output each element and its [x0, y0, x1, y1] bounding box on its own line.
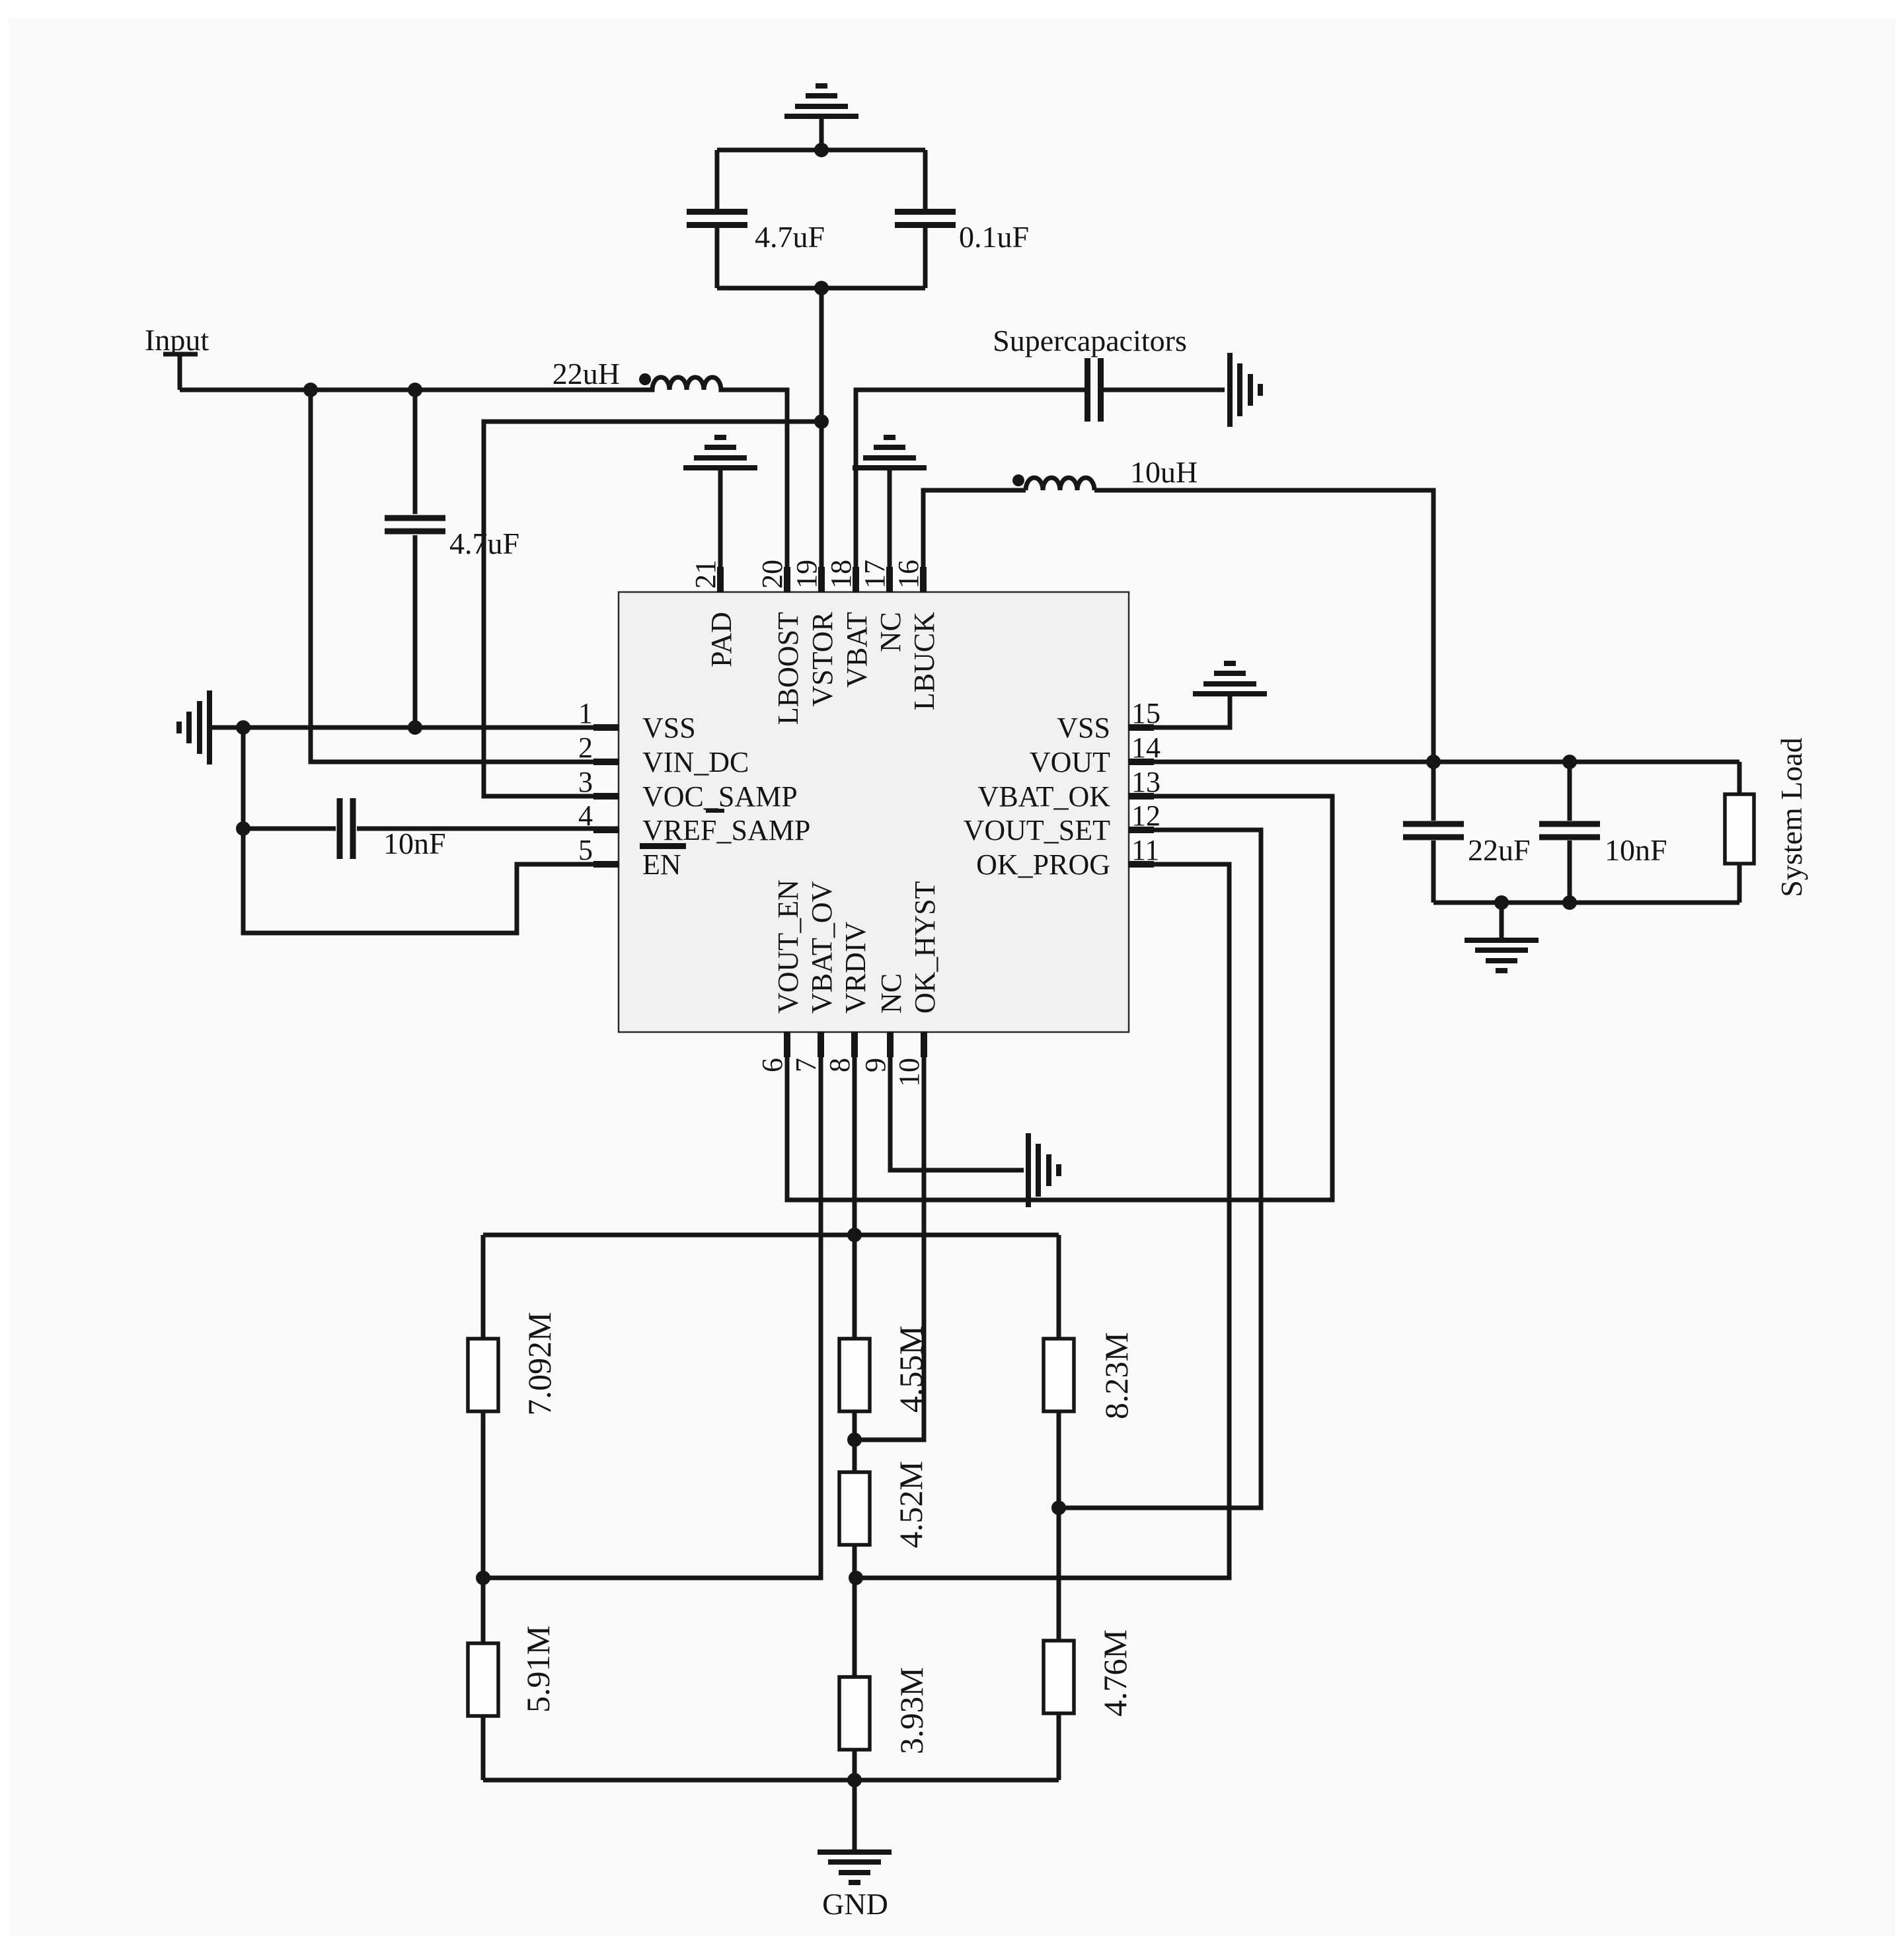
IC U1 pin stubs	[593, 567, 1154, 1057]
svg-text:VOUT_EN: VOUT_EN	[772, 879, 804, 1014]
node junction VOC_SAMP/VSTOR	[814, 414, 829, 429]
capacitor C2 10nF right lead to pin4	[357, 827, 619, 831]
wire VIN_DC pin2	[311, 390, 619, 762]
svg-text:3.93M: 3.93M	[893, 1667, 930, 1754]
ground GND stem	[853, 1780, 857, 1849]
node junction VOUT/10nF	[1562, 755, 1577, 769]
wire VSS pin1	[243, 726, 619, 730]
svg-text:3: 3	[578, 766, 593, 798]
wire divider bottom rail	[483, 1778, 1059, 1783]
resistor RL System Load body	[1725, 794, 1754, 864]
wire NC pin9 to ground	[890, 1031, 1024, 1170]
wire VBAT_OV pin7 to divider	[483, 1031, 821, 1578]
capacitor C3 4.7uF (VSTOR) plates	[687, 209, 747, 215]
svg-text:4.52M: 4.52M	[892, 1461, 929, 1548]
svg-text:EN: EN	[642, 848, 681, 881]
ground PAD pin21 bars	[683, 465, 757, 470]
svg-text:13: 13	[1131, 766, 1161, 798]
wire OK_PROG pin11 to divider	[856, 864, 1229, 1578]
wire EN pin5 loop to ground node	[243, 727, 619, 933]
node junction box top	[814, 143, 829, 157]
IC U1 pin numbers	[578, 560, 1161, 1087]
IC U1 pin labels (EN overline included)	[640, 611, 1110, 1014]
node junction return/10nF	[1562, 895, 1577, 910]
node junction R1/R2/VBAT_OV	[476, 1571, 490, 1585]
node junction return/ground	[1494, 895, 1509, 910]
svg-text:6: 6	[756, 1058, 788, 1072]
wire VOC_SAMP pin3 to VSTOR node	[484, 422, 821, 796]
svg-text:8.23M: 8.23M	[1098, 1332, 1135, 1419]
svg-text:NC: NC	[874, 612, 907, 652]
storage cap box outline	[717, 148, 925, 153]
wire 10uH to VOUT node	[1094, 490, 1433, 762]
ground VOUT return bars	[1465, 938, 1539, 943]
svg-text:7.092M: 7.092M	[521, 1312, 558, 1416]
svg-text:16: 16	[892, 560, 925, 589]
resistor R7 4.76M leads	[1057, 1508, 1061, 1641]
svg-text:22uH: 22uH	[552, 357, 620, 391]
ground VOUT return stem	[1500, 903, 1504, 938]
wire VSS pin15 to ground	[1129, 696, 1230, 727]
svg-text:10nF: 10nF	[383, 827, 446, 860]
node junction EN/10nF	[236, 821, 250, 836]
svg-text:22uF: 22uF	[1468, 833, 1531, 867]
wire OK_HYST pin10 to divider	[855, 1031, 924, 1440]
svg-text:VSS: VSS	[642, 712, 696, 744]
svg-text:7: 7	[790, 1058, 822, 1072]
svg-text:4.55M: 4.55M	[892, 1325, 929, 1413]
capacitor C2 10nF (VREF_SAMP) left lead	[243, 827, 336, 831]
ground GND bars	[818, 1849, 892, 1855]
resistor R2 5.91M leads	[481, 1578, 486, 1643]
node junction VRDIV rail	[847, 1228, 862, 1242]
svg-text:15: 15	[1131, 697, 1161, 729]
svg-text:19: 19	[790, 560, 823, 589]
resistor R7 4.76M body	[1044, 1641, 1074, 1713]
capacitor C5 Supercapacitors plates	[1085, 358, 1090, 422]
svg-text:10uH: 10uH	[1130, 455, 1198, 489]
svg-text:18: 18	[825, 560, 857, 589]
capacitor C7 10nF plates	[1539, 821, 1600, 827]
wire VOUT pin14 rail	[1129, 760, 1739, 764]
resistor RL System Load leads	[1737, 762, 1742, 794]
ground PAD pin21 stem	[718, 470, 723, 593]
svg-text:VSTOR: VSTOR	[806, 611, 839, 706]
svg-text:5: 5	[578, 834, 593, 866]
capacitor C1 4.7uF plates	[385, 515, 445, 521]
wire VSTOR pin19	[819, 288, 824, 593]
svg-text:14: 14	[1131, 731, 1161, 764]
node junction input/Cin	[408, 383, 422, 397]
inductor L1 22uH phase dot	[639, 373, 651, 385]
svg-text:PAD: PAD	[705, 612, 738, 667]
resistor R3 4.55M body	[839, 1339, 870, 1411]
wire VBAT pin18 to supercapacitors	[856, 390, 1085, 593]
node junction GND rail	[847, 1773, 862, 1787]
capacitor C2 10nF plates	[337, 798, 343, 859]
svg-text:4.76M: 4.76M	[1096, 1629, 1133, 1717]
resistor R4 4.52M body	[839, 1472, 870, 1545]
svg-text:8: 8	[823, 1058, 856, 1072]
resistor R2 5.91M body	[468, 1643, 498, 1716]
ground NC pin17 bars	[853, 465, 927, 470]
svg-text:Input: Input	[145, 323, 209, 357]
ground top (VSTOR) bars	[784, 114, 858, 119]
ground left (VSS) stem	[212, 726, 243, 730]
node junction VOUT/22uF	[1426, 755, 1441, 769]
svg-text:OK_HYST: OK_HYST	[909, 881, 941, 1014]
svg-text:11: 11	[1131, 834, 1159, 866]
svg-text:17: 17	[858, 560, 891, 589]
ground left (VSS) bars	[207, 690, 212, 764]
wire LBUCK pin16 to 10uH	[923, 490, 1026, 593]
resistor R4 4.52M leads	[853, 1545, 857, 1677]
ground VSS pin15 bars	[1193, 691, 1267, 696]
wire VOUT_SET pin12 to divider	[1059, 830, 1261, 1508]
svg-text:Supercapacitors: Supercapacitors	[993, 324, 1187, 357]
svg-text:5.91M: 5.91M	[519, 1625, 556, 1713]
wire supercap to ground	[1104, 388, 1225, 392]
inductor L2 10uH phase dot	[1012, 474, 1024, 486]
ground NC pin17 stem	[888, 470, 892, 593]
svg-text:VBAT_OK: VBAT_OK	[978, 780, 1111, 813]
resistor R5 3.93M body	[839, 1677, 870, 1750]
inductor L2 10uH coil	[1026, 478, 1094, 490]
svg-text:1: 1	[578, 697, 593, 729]
svg-text:2: 2	[578, 731, 593, 764]
svg-text:VIN_DC: VIN_DC	[642, 746, 749, 778]
node junction VSS/ground	[236, 720, 250, 735]
resistor R5 3.93M leads	[853, 1750, 857, 1780]
svg-text:VSS: VSS	[1057, 712, 1110, 744]
ground NC pin9 bars	[1026, 1133, 1031, 1207]
resistor R6 8.23M leads	[1057, 1235, 1061, 1339]
port Input marker	[163, 352, 198, 357]
svg-text:LBOOST: LBOOST	[772, 612, 804, 725]
svg-text:NC: NC	[875, 973, 907, 1014]
svg-text:VOUT_SET: VOUT_SET	[964, 814, 1111, 846]
svg-text:4.7uF: 4.7uF	[755, 220, 825, 254]
svg-text:10nF: 10nF	[1605, 833, 1667, 867]
svg-text:20: 20	[756, 560, 788, 589]
svg-text:VBAT_OV: VBAT_OV	[806, 881, 838, 1014]
svg-text:VOC_SAMP: VOC_SAMP	[642, 780, 798, 813]
wire VOUT return rail	[1433, 901, 1739, 905]
svg-text:21: 21	[689, 560, 722, 589]
node junction VOUT_SET/divider	[1051, 1501, 1066, 1515]
resistor R1 7.092M leads	[481, 1235, 486, 1339]
node junction C1/VSS	[408, 720, 422, 735]
svg-text:System Load: System Load	[1774, 737, 1808, 897]
wire VBAT_OK pin13 to VOUT_EN pin6	[787, 796, 1332, 1200]
svg-text:10: 10	[893, 1058, 925, 1087]
svg-text:OK_PROG: OK_PROG	[976, 848, 1110, 881]
wire Input to 22uH and LBOOST pin20	[180, 377, 787, 593]
svg-text:VREF_SAMP: VREF_SAMP	[642, 814, 810, 846]
svg-text:12: 12	[1131, 800, 1161, 832]
node junction OK_PROG/divider	[849, 1571, 863, 1585]
svg-text:VRDIV: VRDIV	[839, 921, 872, 1014]
resistor R3 4.55M leads	[853, 1411, 857, 1472]
IC U1 body (buck/boost charger, 21-pin)	[619, 592, 1129, 1032]
svg-text:GND: GND	[822, 1887, 888, 1921]
capacitor C1 4.7uF (input) leads	[413, 390, 418, 514]
resistor R1 7.092M body	[468, 1339, 498, 1411]
capacitor C4 0.1uF (VSTOR) plates	[895, 209, 956, 215]
svg-text:LBUCK: LBUCK	[908, 612, 940, 710]
capacitor C6 22uF plates	[1403, 821, 1464, 827]
wire VRDIV pin8 rail	[853, 1031, 857, 1339]
capacitor C7 10nF leads	[1568, 762, 1572, 821]
ground top (VSTOR) stem	[819, 118, 824, 150]
node junction box bottom	[814, 281, 829, 295]
svg-text:VOUT: VOUT	[1030, 746, 1110, 778]
resistor R6 8.23M body	[1044, 1339, 1074, 1411]
node junction OK_HYST/divider	[847, 1433, 862, 1447]
svg-text:9: 9	[859, 1058, 892, 1072]
capacitor C6 22uF leads	[1431, 762, 1436, 821]
ground right (supercap) bars	[1227, 353, 1233, 427]
svg-text:0.1uF: 0.1uF	[959, 220, 1029, 254]
svg-text:VBAT: VBAT	[841, 612, 873, 688]
node junction input/VIN_DC	[303, 383, 318, 397]
